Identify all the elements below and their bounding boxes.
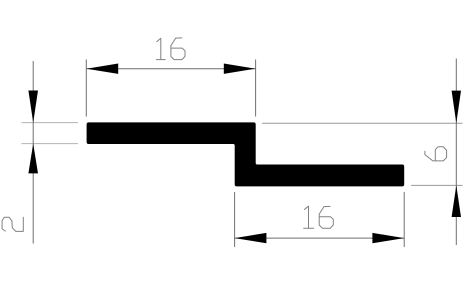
left thickness dimension: extension line upper xyxy=(22,122,79,124)
right height dimension: extension line lower xyxy=(411,184,463,186)
top dimension text "16" xyxy=(156,38,185,60)
left dimension line (vertical) xyxy=(32,61,34,244)
top dimension: left arrowhead xyxy=(86,64,118,74)
top dimension line xyxy=(86,68,255,70)
bottom dimension: extension line left xyxy=(234,192,236,247)
Z-profile cross-section body xyxy=(87,122,405,186)
top dimension: right arrowhead xyxy=(224,64,256,74)
right dimension line (vertical) xyxy=(455,59,457,246)
right dimension: lower arrowhead (points up) xyxy=(452,185,461,217)
top dimension: extension line right xyxy=(255,60,257,117)
left dimension: lower arrowhead (points up) xyxy=(28,144,38,174)
bottom dimension text "16" xyxy=(304,206,334,228)
bottom dimension: extension line right xyxy=(403,192,405,247)
bottom dimension line xyxy=(235,237,405,239)
right dimension text "6" (rotated) xyxy=(425,147,447,161)
bottom dimension: right arrowhead xyxy=(372,233,404,243)
top dimension: extension line left xyxy=(85,60,87,117)
left dimension text "2" (rotated) xyxy=(2,217,23,231)
bottom dimension: left arrowhead xyxy=(235,233,267,243)
left thickness dimension: extension line lower xyxy=(22,143,79,145)
right height dimension: extension line upper xyxy=(262,122,463,124)
right dimension: upper arrowhead (points down) xyxy=(452,91,461,124)
left dimension: upper arrowhead (points down) xyxy=(28,91,38,123)
